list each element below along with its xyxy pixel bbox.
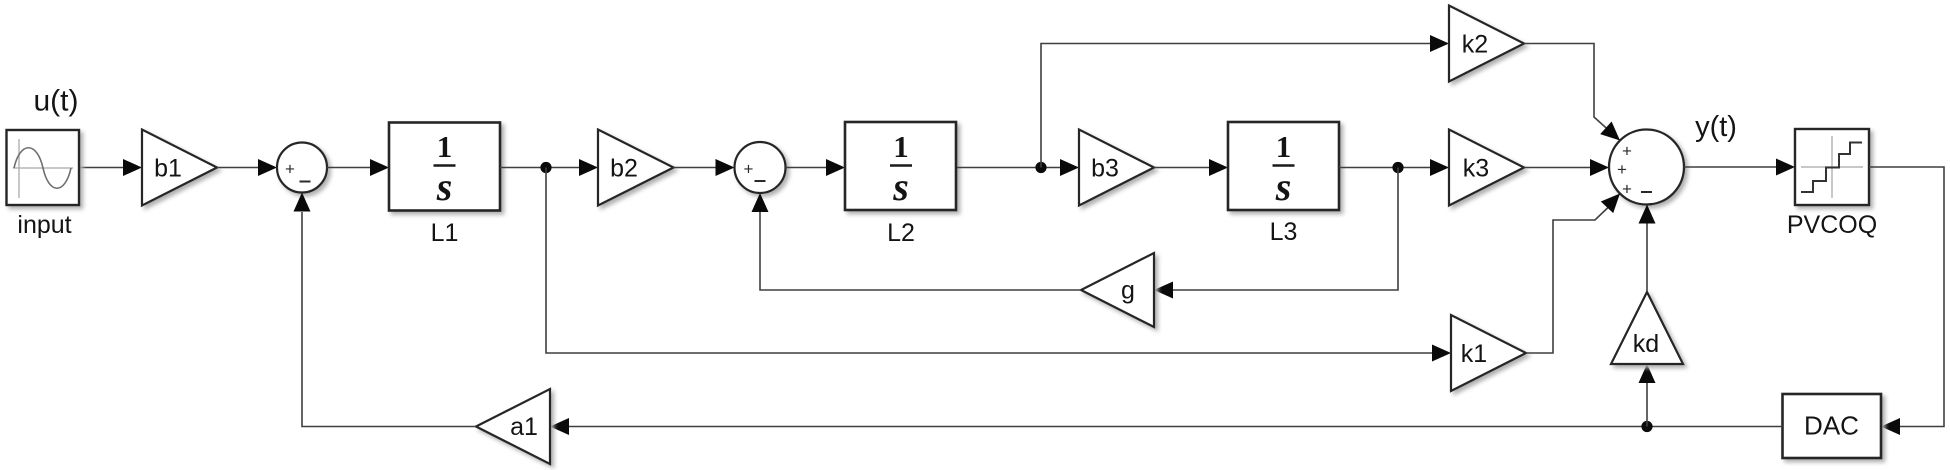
wire sum S2 to integrator L2 [786, 159, 846, 176]
wire b1 to sum S1 [217, 159, 277, 176]
svg-text:input: input [17, 211, 71, 239]
svg-text:b3: b3 [1091, 155, 1119, 183]
svg-text:L2: L2 [887, 219, 915, 247]
svg-text:+: + [1622, 180, 1632, 199]
svg-text:g: g [1121, 277, 1135, 305]
sum S2 [735, 142, 786, 193]
svg-text:+: + [1617, 160, 1627, 179]
integrator L1 [389, 123, 500, 211]
svg-text:s: s [1275, 164, 1292, 209]
wire DAC to a1 [550, 418, 1783, 435]
svg-text:PVCOQ: PVCOQ [1787, 211, 1877, 239]
block label input [17, 211, 71, 239]
wire junction to kd [1639, 364, 1656, 427]
converter DAC [1783, 394, 1882, 458]
wire junction L2 to k2 [1041, 35, 1449, 168]
wire junction L3 to g [1154, 168, 1398, 299]
svg-text:+: + [1622, 142, 1632, 161]
wire g to sum S2 [752, 193, 1082, 290]
wire a1 to sum S1 [294, 193, 477, 427]
node label u(t) [34, 85, 79, 118]
svg-text:s: s [892, 164, 909, 209]
gain k3 [1449, 130, 1524, 206]
junction on DAC output [1641, 421, 1652, 432]
svg-text:k2: k2 [1462, 31, 1488, 59]
wire b3 to integrator L3 [1154, 159, 1228, 176]
wire k1 to sum S3 [1526, 194, 1620, 354]
node label y(t) [1695, 111, 1737, 143]
sum S1 [277, 143, 327, 193]
wire L1 to b2 [500, 159, 598, 176]
wire L3 to k3 [1339, 159, 1449, 176]
wire L2 to b3 [957, 159, 1079, 176]
svg-text:L3: L3 [1270, 218, 1298, 246]
svg-text:1: 1 [437, 129, 453, 164]
wire b2 to sum S2 [674, 159, 735, 176]
wire junction L1 to k1 [546, 168, 1451, 362]
wire k3 to sum S3 [1524, 159, 1609, 176]
source block input [7, 130, 80, 205]
svg-text:1: 1 [893, 129, 909, 164]
svg-text:y(t): y(t) [1695, 111, 1737, 143]
gain b2 [598, 130, 674, 206]
wire sum S1 to integrator L1 [327, 159, 389, 176]
wire sum S3 to PVCOQ [1684, 159, 1795, 176]
svg-text:a1: a1 [510, 413, 538, 441]
gain k2 [1449, 6, 1524, 82]
wire input to b1 [79, 159, 142, 176]
wire PVCOQ to DAC [1869, 167, 1944, 435]
junction after L2 [1035, 162, 1046, 173]
block label L2 [887, 219, 915, 247]
svg-text:+: + [285, 160, 295, 179]
svg-text:1: 1 [1276, 129, 1292, 164]
svg-text:b2: b2 [610, 155, 638, 183]
quantizer PVCOQ [1795, 129, 1869, 205]
gain kd [1611, 292, 1683, 364]
integrator L2 [845, 122, 956, 210]
svg-text:+: + [744, 160, 754, 179]
svg-text:b1: b1 [154, 155, 182, 183]
gain a1 [476, 389, 550, 464]
svg-text:u(t): u(t) [34, 85, 79, 118]
block label L3 [1270, 218, 1298, 246]
svg-text:k3: k3 [1463, 155, 1489, 183]
sum S3 [1609, 130, 1684, 205]
wire k2 to sum S3 [1524, 44, 1620, 141]
gain g [1081, 253, 1154, 327]
svg-text:L1: L1 [431, 219, 459, 247]
svg-text:k1: k1 [1461, 340, 1487, 368]
junction after L1 [540, 162, 551, 173]
svg-text:kd: kd [1633, 330, 1659, 358]
gain b3 [1079, 130, 1154, 206]
wire kd to sum S3 [1639, 205, 1656, 293]
gain k1 [1451, 315, 1526, 391]
junction after L3 [1392, 162, 1403, 173]
svg-text:DAC: DAC [1804, 411, 1859, 441]
block label PVCOQ [1787, 211, 1877, 239]
svg-text:s: s [436, 164, 453, 209]
gain b1 [142, 130, 217, 206]
block label L1 [431, 219, 459, 247]
integrator L3 [1228, 122, 1339, 210]
